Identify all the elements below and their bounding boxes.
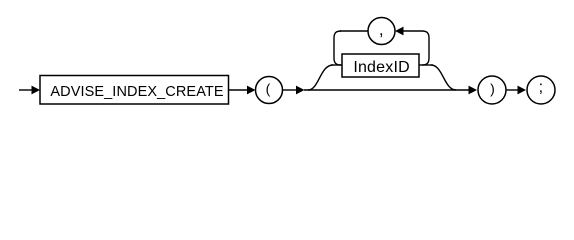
wire: loop right vertical: [403, 31, 429, 65]
svg-text:ADVISE_INDEX_CREATE: ADVISE_INDEX_CREATE: [50, 84, 223, 100]
circle terminal comma: [368, 18, 395, 45]
wire: IndexID row line right: [419, 64, 433, 66]
wire: close-paren to semicolon: [506, 89, 520, 91]
wire: bypass line under IndexID loop: [304, 89, 470, 91]
svg-text:,: ,: [379, 20, 384, 39]
svg-text:(: (: [266, 80, 271, 96]
wire: exit S-curve down to main line: [431, 65, 456, 90]
svg-text:): ): [490, 81, 495, 97]
circle terminal (: [256, 77, 283, 104]
terminal box ADVISE_INDEX_CREATE: [40, 76, 229, 105]
arrowhead at loop junction: [296, 86, 305, 95]
wire: box1 to open-paren: [229, 89, 250, 91]
wire: entry line: [19, 89, 34, 91]
wire: entry S-curve up to IndexID row: [308, 65, 333, 90]
arrowhead into open-paren circle: [247, 86, 256, 95]
arrowhead into box ADVISE_INDEX_CREATE: [32, 86, 41, 95]
wire: loop left vertical: [334, 31, 341, 65]
box IndexID: [342, 54, 419, 77]
arrowhead into semicolon circle: [518, 86, 527, 95]
wire: IndexID row line left: [331, 64, 342, 66]
svg-text:;: ;: [539, 79, 543, 96]
circle terminal ): [478, 76, 506, 104]
svg-text:IndexID: IndexID: [353, 59, 410, 76]
circle terminal semicolon: [527, 76, 555, 104]
wire: loop top line left of comma: [340, 30, 368, 32]
wire: open-paren to loop junction: [283, 89, 299, 91]
arrowhead into comma circle (pointing left): [395, 27, 404, 36]
arrowhead into close-paren circle: [469, 86, 478, 95]
